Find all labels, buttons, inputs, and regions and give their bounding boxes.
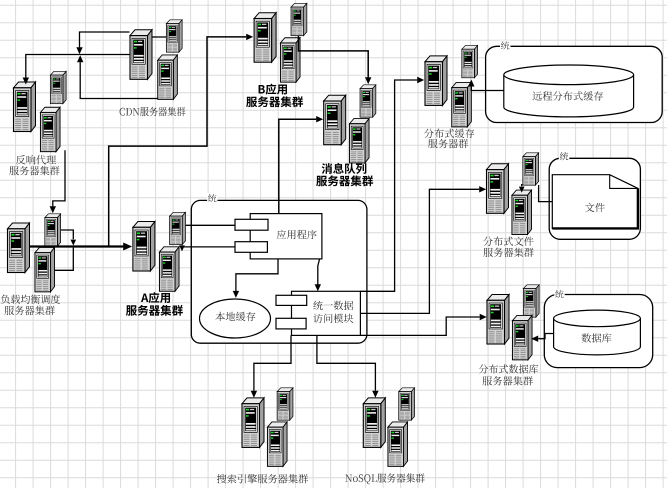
- server search medium: [267, 422, 287, 466]
- wire unified-module to search cluster: [254, 335, 291, 390]
- label search engine cluster: [217, 474, 308, 484]
- server CDN big: [130, 30, 152, 80]
- server B-app medium: [280, 38, 300, 82]
- label B-app line1: [259, 84, 287, 95]
- wire CDN-big to reverse-proxy: [26, 55, 130, 78]
- wire unified-module to file cluster: [360, 189, 479, 313]
- server nosql small: [399, 388, 415, 420]
- wire main junction to B-app: [109, 37, 247, 247]
- wire db cylinder to db-medium: [538, 334, 554, 339]
- server B-app small: [291, 3, 307, 35]
- label unified data line2: [313, 314, 353, 323]
- label distributed database line2: [483, 376, 533, 386]
- wire CDN-big to CDN-small: [153, 36, 167, 38]
- wire reverse-proxy-medium to load-balancer-small: [53, 150, 65, 206]
- label message queue line1: [322, 163, 367, 174]
- server nosql medium: [388, 422, 408, 466]
- server db medium: [512, 315, 532, 359]
- label application program: [277, 230, 317, 239]
- label B-app line2: [246, 96, 303, 107]
- wire application-program to local-cache: [236, 259, 278, 291]
- wire application-program to message-queue-big: [279, 119, 316, 213]
- server file medium: [512, 190, 532, 234]
- label CDN server cluster: [120, 107, 186, 117]
- server B-app big: [254, 13, 276, 63]
- server load-balancer medium: [35, 247, 55, 291]
- server nosql big: [363, 398, 385, 448]
- label database cylinder: [582, 333, 612, 342]
- container box: database: [544, 295, 652, 368]
- wire unified-module to nosql cluster: [317, 335, 376, 390]
- server load-balancer small: [45, 214, 61, 246]
- server A-app small: [170, 212, 186, 244]
- server reverse-proxy medium: [40, 107, 60, 151]
- wire CDN-big to junction (upper): [80, 32, 130, 47]
- server cache big: [425, 56, 447, 106]
- server A-app big: [133, 222, 155, 272]
- label distributed cache line2: [428, 139, 468, 149]
- wire load-balancer to A-app (main): [30, 245, 124, 247]
- server file big: [487, 164, 509, 214]
- label distributed file line1: [483, 236, 533, 245]
- server A-app medium: [159, 247, 179, 291]
- cylinder: database: [554, 310, 641, 355]
- server reverse-proxy small: [50, 71, 66, 103]
- container box: remote distributed cache: [486, 46, 663, 122]
- server cache small: [462, 45, 478, 77]
- label load balancer line2: [5, 306, 55, 316]
- server file small: [523, 153, 539, 185]
- label A-app line1: [141, 292, 170, 303]
- wire unified-module to cache cluster: [360, 80, 417, 291]
- label A-app line2: [126, 305, 183, 316]
- wire load-balancer-medium to main wire: [55, 248, 73, 271]
- wire B-app-small to message-queue-small: [298, 36, 368, 78]
- label unified data line1: [313, 301, 353, 310]
- label file: [585, 203, 605, 212]
- wire load-balancer-small to main wire: [61, 230, 73, 239]
- wire application tab2 to A-app-medium: [182, 246, 235, 247]
- tag on application box: [207, 193, 217, 203]
- label distributed file line2: [483, 248, 533, 258]
- wire file-small to file-medium: [521, 184, 523, 186]
- server message-queue medium: [349, 119, 369, 163]
- server CDN small: [166, 20, 182, 52]
- label load balancer line1: [1, 295, 60, 304]
- tag on database box: [554, 289, 564, 299]
- wire A-app-small to application tab1: [186, 224, 235, 226]
- container box: application cluster: [191, 200, 367, 343]
- tag on file box: [559, 151, 569, 161]
- server db big: [487, 295, 509, 345]
- server db small: [523, 285, 539, 317]
- ellipse: local cache: [200, 299, 271, 338]
- label distributed cache line1: [424, 129, 474, 138]
- server message-queue small: [360, 85, 376, 117]
- cylinder: remote distributed cache: [504, 65, 634, 117]
- server load-balancer big: [8, 223, 30, 273]
- server message-queue big: [324, 95, 346, 145]
- server search small: [277, 388, 293, 420]
- server cache medium: [452, 82, 472, 126]
- wire application-program to unified-module: [318, 259, 320, 285]
- wire file-small to file shape: [539, 185, 553, 202]
- label NoSQL cluster: [345, 473, 424, 484]
- label reverse proxy line1: [16, 155, 56, 164]
- label reverse proxy line2: [9, 166, 59, 176]
- tag on remote cache box: [500, 40, 510, 50]
- label local cache: [215, 312, 255, 321]
- component: application program: [235, 214, 322, 259]
- file (folded document) shape: [552, 175, 638, 229]
- wire unified-module to db cluster: [360, 317, 479, 335]
- component: unified data access module: [276, 291, 360, 335]
- server reverse-proxy big: [14, 82, 36, 132]
- server search big: [242, 398, 264, 448]
- label remote distributed cache: [532, 91, 603, 100]
- label distributed database line1: [479, 364, 538, 373]
- wire remote-cache cylinder to cache-small: [471, 86, 504, 90]
- label message queue line2: [316, 175, 373, 186]
- server CDN medium: [158, 55, 178, 99]
- wire CDN-medium to junction (lower): [80, 62, 158, 98]
- container box: file: [549, 158, 640, 239]
